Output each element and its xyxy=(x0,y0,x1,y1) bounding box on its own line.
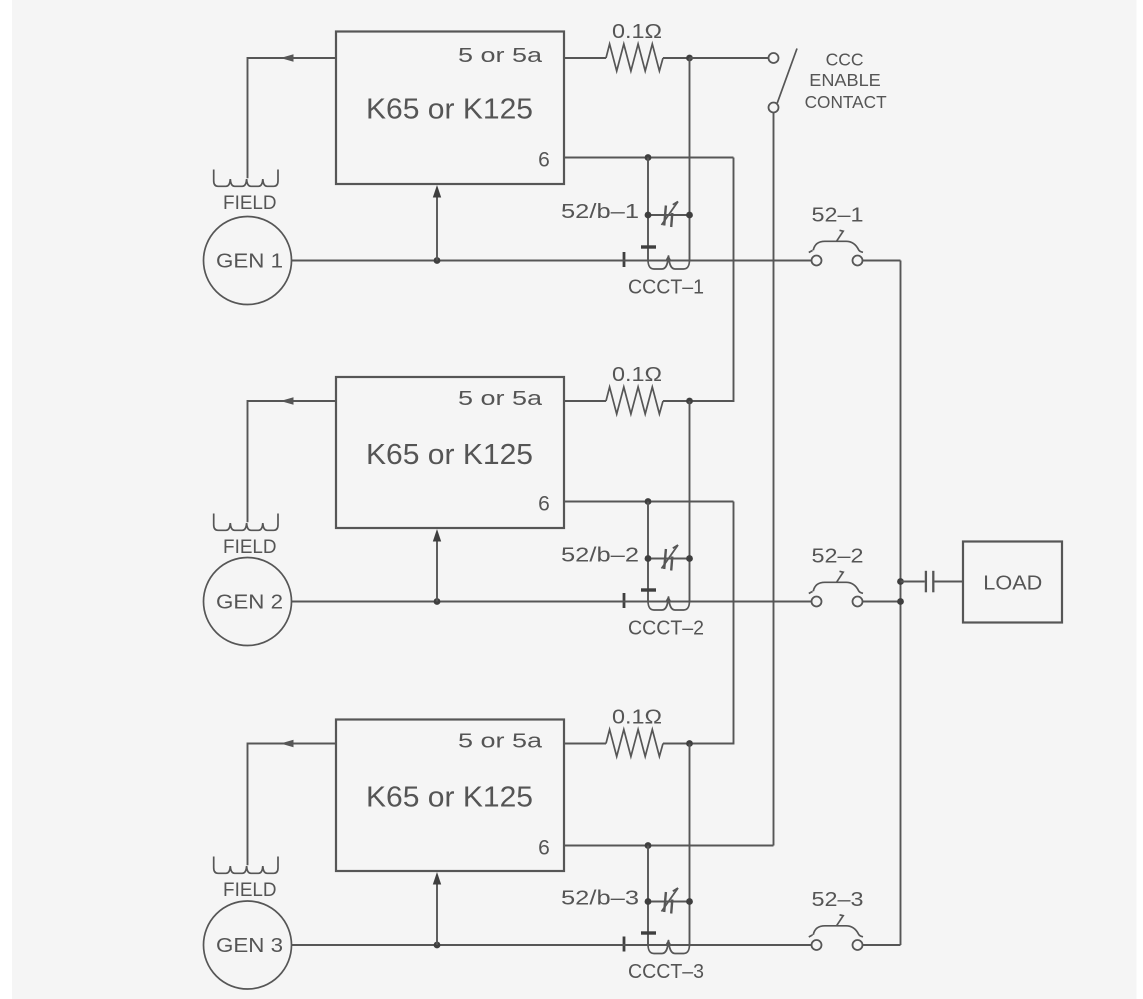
breaker contact 52-2 xyxy=(809,571,863,606)
svg-text:FIELD: FIELD xyxy=(223,880,277,901)
junction node A3 xyxy=(686,740,693,747)
junction dot 52/b-1 left xyxy=(645,212,652,219)
wire: U3 pin 5 to resistor R3 xyxy=(564,743,606,745)
junction node B1 on pin-6 wire xyxy=(645,154,652,161)
wire: R3 to node A3 xyxy=(663,743,690,745)
svg-text:GEN 3: GEN 3 xyxy=(216,935,283,957)
wire: U3 pin 6 xyxy=(564,845,774,847)
svg-text:5 or 5a: 5 or 5a xyxy=(458,45,543,67)
CT primary tick (CCCT-2) xyxy=(623,593,626,608)
wire: generator G1 main line xyxy=(292,260,812,262)
arrow on field wire (G3) xyxy=(281,740,294,748)
arrowhead into U1 xyxy=(433,185,441,198)
wire: U2 to field winding xyxy=(248,401,337,522)
wire: node A2 down to CCCT-2 secondary xyxy=(689,401,691,602)
svg-text:FIELD: FIELD xyxy=(223,537,277,558)
wire: generator G2 main line xyxy=(292,601,812,603)
contact 52/b-2 (breaker aux) xyxy=(648,545,690,571)
junction dot sensing tap (G1) xyxy=(434,257,441,264)
generator G3 xyxy=(204,901,292,989)
switch: CCC enable contact xyxy=(690,49,798,113)
svg-text:0.1Ω: 0.1Ω xyxy=(612,364,662,386)
svg-text:CCC: CCC xyxy=(826,49,864,69)
junction dot bus / main line 2 xyxy=(897,598,904,605)
wire: CCC enable contact down to U3 pin-6 wire xyxy=(773,113,775,846)
svg-text:CCCT–1: CCCT–1 xyxy=(628,277,704,299)
junction node B2 on pin-6 wire xyxy=(645,498,652,505)
resistor R1 0.1 ohm xyxy=(606,44,663,71)
CT terminal bar (CCCT-1) xyxy=(641,245,656,248)
wire: 52-1 to load bus xyxy=(863,260,901,262)
field winding (G1) xyxy=(214,170,278,187)
svg-text:52–1: 52–1 xyxy=(812,205,864,227)
load box xyxy=(963,542,1062,623)
wire: U1 pin 5 to resistor R1 xyxy=(564,57,606,59)
CT terminal bar (CCCT-3) xyxy=(641,931,656,934)
svg-text:ENABLE: ENABLE xyxy=(809,70,881,90)
wire: R1 to node A1 xyxy=(663,57,690,59)
wire: node A3 down to CCCT-3 secondary xyxy=(689,744,691,946)
wire: 52-2 to load bus xyxy=(863,601,901,603)
junction dot 52/b-3 left xyxy=(645,898,652,905)
svg-text:52/b–2: 52/b–2 xyxy=(561,545,639,567)
current transformer CCCT-3 secondary xyxy=(648,940,690,954)
junction dot 52/b-1 right xyxy=(686,212,693,219)
svg-text:LOAD: LOAD xyxy=(983,573,1042,595)
svg-text:5 or 5a: 5 or 5a xyxy=(458,388,543,410)
wire: pin-6 loop from U2 down to node A3 xyxy=(690,502,734,744)
svg-text:52/b–3: 52/b–3 xyxy=(561,888,639,910)
arrowhead into U3 xyxy=(433,872,441,885)
junction dot 52/b-2 right xyxy=(686,555,693,562)
wire: U1 to field winding xyxy=(248,58,337,178)
arrowhead into U2 xyxy=(433,529,441,542)
arrow on field wire (G1) xyxy=(281,54,294,62)
svg-text:52–3: 52–3 xyxy=(812,889,864,911)
bus wire: 52 contacts to load xyxy=(900,261,902,946)
svg-text:6: 6 xyxy=(538,149,550,172)
junction node A2 xyxy=(686,398,693,405)
wire: node B1 down to CCCT-1 secondary xyxy=(647,158,649,261)
wire: U2 pin 5 to resistor R2 xyxy=(564,400,606,402)
svg-text:K65 or K125: K65 or K125 xyxy=(366,94,533,126)
CT primary tick (CCCT-3) xyxy=(623,937,626,952)
svg-text:GEN 1: GEN 1 xyxy=(216,251,283,273)
current transformer CCCT-1 secondary xyxy=(648,256,690,270)
wire: R2 to node A2 xyxy=(663,400,690,402)
junction dot sensing tap (G3) xyxy=(434,942,441,949)
svg-text:GEN 2: GEN 2 xyxy=(216,592,283,614)
svg-text:CCCT–3: CCCT–3 xyxy=(628,961,704,983)
junction dot sensing tap (G2) xyxy=(434,598,441,605)
resistor R2 0.1 ohm xyxy=(606,387,663,414)
svg-text:K65 or K125: K65 or K125 xyxy=(366,782,533,814)
regulator box U3 xyxy=(336,720,564,872)
wire: node A1 down to CCCT-1 secondary xyxy=(689,58,691,261)
svg-text:CCCT–2: CCCT–2 xyxy=(628,618,704,640)
wire: U1 pin 6 xyxy=(564,157,734,159)
svg-text:6: 6 xyxy=(538,493,550,516)
wire: generator G3 main line xyxy=(292,944,812,946)
breaker contact 52-1 xyxy=(809,230,863,265)
junction node B3 on pin-6 wire xyxy=(645,842,652,849)
wire: U3 to field winding xyxy=(248,744,337,866)
breaker contact 52-3 xyxy=(809,915,863,950)
svg-text:0.1Ω: 0.1Ω xyxy=(612,707,662,729)
wire: sensing tap up to U3 xyxy=(436,883,438,945)
svg-text:0.1Ω: 0.1Ω xyxy=(612,21,662,43)
regulator box U1 xyxy=(336,32,564,185)
contact 52/b-3 (breaker aux) xyxy=(648,888,690,914)
wire: 52-3 to load bus xyxy=(863,944,901,946)
arrow on field wire (G2) xyxy=(281,397,294,405)
junction dot 52/b-2 left xyxy=(645,555,652,562)
wire: node B2 down to CCCT-2 secondary xyxy=(647,502,649,602)
junction node A1 xyxy=(686,55,693,62)
svg-text:FIELD: FIELD xyxy=(223,193,277,214)
field winding (G2) xyxy=(214,514,278,531)
CT primary tick (CCCT-1) xyxy=(623,252,626,267)
wire: sensing tap up to U2 xyxy=(436,540,438,602)
capacitor C1 to load xyxy=(901,571,964,593)
wire: pin-6 loop from U1 down to node A2 xyxy=(690,158,734,402)
contact 52/b-1 (breaker aux) xyxy=(648,202,690,228)
CT terminal bar (CCCT-2) xyxy=(641,588,656,591)
current transformer CCCT-2 secondary xyxy=(648,597,690,611)
svg-text:52–2: 52–2 xyxy=(812,546,864,568)
junction dot bus / capacitor branch xyxy=(897,578,904,585)
field winding (G3) xyxy=(214,857,278,874)
regulator box U2 xyxy=(336,377,564,528)
junction dot 52/b-3 right xyxy=(686,898,693,905)
generator G2 xyxy=(204,558,292,646)
svg-text:5 or 5a: 5 or 5a xyxy=(458,731,543,753)
wire: U2 pin 6 xyxy=(564,501,734,503)
svg-text:CONTACT: CONTACT xyxy=(805,92,887,112)
svg-text:K65 or K125: K65 or K125 xyxy=(366,439,533,471)
svg-text:6: 6 xyxy=(538,837,550,860)
resistor R3 0.1 ohm xyxy=(606,730,663,757)
svg-text:52/b–1: 52/b–1 xyxy=(561,201,639,223)
generator G1 xyxy=(204,217,292,305)
wire: sensing tap up to U1 xyxy=(436,196,438,261)
wire: node B3 down to CCCT-3 secondary xyxy=(647,846,649,946)
